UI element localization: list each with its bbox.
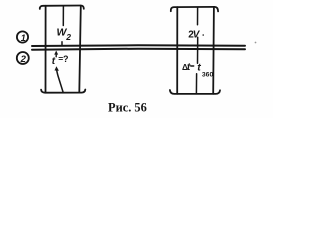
svg-text:t: t — [187, 62, 191, 73]
svg-text:t: t — [52, 56, 56, 67]
svg-text:360: 360 — [202, 71, 214, 78]
svg-text:t: t — [197, 61, 201, 73]
svg-text:Рис. 56: Рис. 56 — [108, 101, 147, 115]
svg-text:?: ? — [63, 54, 69, 64]
svg-text:1: 1 — [21, 33, 26, 43]
svg-text:2: 2 — [65, 32, 71, 42]
svg-text:2: 2 — [20, 54, 27, 65]
svg-text:V: V — [193, 30, 201, 41]
